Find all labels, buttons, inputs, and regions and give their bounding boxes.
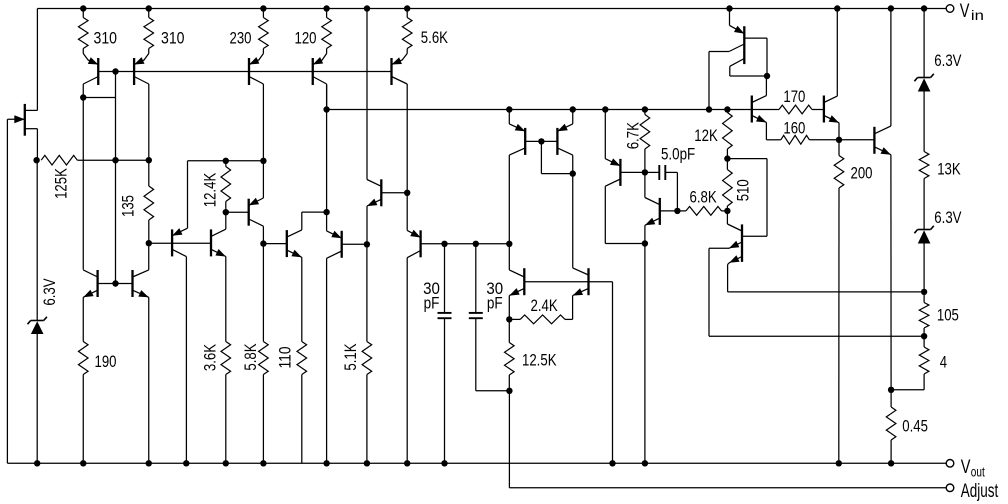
node Vout rail junction	[609, 460, 615, 466]
transistor Q1 (PNP under 310)	[83, 54, 98, 98]
node 12.5K bottom junction	[506, 388, 512, 394]
transistor Q5 (PNP under 5.6K)	[392, 54, 408, 193]
node Vout rail junction	[260, 460, 266, 466]
node Q8 collector junction	[260, 240, 266, 246]
transistor Q23 (NPN on mid rail)	[752, 76, 767, 140]
wire 12.5K bottom down to Adjust rail	[508, 391, 510, 488]
node 12.4K bottom junction	[223, 209, 229, 215]
node Vin rail junction	[80, 5, 86, 11]
node Vout rail junction	[34, 460, 40, 466]
node cap C2 top	[473, 241, 479, 247]
wire Q15 base to Q16 bar	[524, 281, 588, 283]
transistor Q7 (NPN, collector to 12.4K bottom)	[211, 212, 226, 341]
node Q10 base / Q11 emitter junction	[364, 241, 370, 247]
wire 12.4K top rail	[188, 160, 264, 162]
wire 125K node down to zener	[36, 160, 38, 320]
node Vout rail junction	[146, 460, 152, 466]
svg-text:pF: pF	[424, 294, 440, 312]
svg-text:3.6K: 3.6K	[202, 344, 220, 371]
node mirror Q13 emitter tap	[506, 106, 512, 112]
resistor 5.6K (top row #5)	[402, 9, 448, 54]
resistor 160	[766, 119, 839, 144]
transistor Q11 (NPN in line with Vin column)	[367, 179, 381, 244]
resistor 200	[834, 140, 872, 464]
node bandgap base junction	[112, 280, 118, 286]
svg-text:Adjust: Adjust	[961, 481, 999, 502]
node Adjust terminal	[946, 481, 999, 502]
node Q4-collector / Q10 emitter junction	[323, 209, 329, 215]
wire Q16 base down to Vout rail	[589, 282, 613, 464]
resistor 12K	[694, 110, 732, 159]
svg-text:170: 170	[783, 88, 805, 106]
svg-text:125K: 125K	[53, 168, 71, 199]
wire Vout bottom rail	[7, 462, 946, 464]
wire mirror base jog down	[541, 141, 572, 173]
svg-text:12.4K: 12.4K	[201, 173, 219, 208]
transistor Q21/Q22 Darlington pair (NPN, mirrored)	[709, 211, 742, 265]
node Vout terminal	[946, 457, 985, 479]
transistor Q14 (PNP mirror right, diode connected)	[557, 110, 572, 174]
wire bandgap base link	[98, 283, 133, 285]
resistor 135	[120, 160, 154, 243]
wire Q4 collector column	[326, 85, 328, 212]
resistor 5.8K	[242, 244, 268, 464]
node 12K bottom junction	[724, 155, 730, 161]
wire mid rail y=109	[327, 109, 752, 111]
wire junction down to Vout rail	[644, 244, 646, 464]
wire 12K-bottom wrap to Q21 collector	[727, 159, 767, 237]
svg-text:6.3V: 6.3V	[934, 52, 961, 70]
resistor 5.1K	[342, 342, 372, 464]
resistor 120 (top row #4)	[295, 9, 332, 54]
node Vout rail junction	[323, 460, 329, 466]
wire Q10 base to node	[342, 243, 367, 245]
capacitor C2 30pF	[469, 244, 510, 391]
wire Q21 emitter down and right to 105/4 node	[709, 248, 924, 336]
node Q17-collector / Q18-emitter junction	[642, 240, 648, 246]
wire Adjust rail	[509, 487, 946, 489]
transistor Q25 (NPN output)	[874, 9, 891, 390]
resistor 170	[752, 88, 824, 114]
transistor Q16 (NPN mirrored)	[573, 268, 589, 320]
node 6.7K bottom / Q17 base / Q18 collector / C3 junction	[642, 169, 648, 175]
transistor Q24 (NPN)	[824, 9, 839, 140]
wire Q18 base	[660, 210, 678, 212]
transistor Q17 (PNP)	[605, 110, 645, 244]
wire base rail of Q1-Q5	[98, 71, 391, 73]
svg-text:200: 200	[851, 165, 873, 183]
svg-text:6.3V: 6.3V	[934, 209, 961, 227]
wire Q17 base	[620, 171, 645, 173]
node zener / Q22-emitter-wire junction	[921, 289, 927, 295]
node Vin rail junction	[364, 5, 370, 11]
wire Q8 collector to Q9 base	[263, 243, 286, 245]
node mirror Q14 emitter tap	[570, 106, 576, 112]
resistor 110	[277, 342, 307, 464]
node Vout rail junction	[364, 460, 370, 466]
node Vin rail junction	[260, 5, 266, 11]
transistor Q9 (NPN)	[287, 212, 302, 341]
resistor 2.4K	[509, 297, 572, 324]
svg-text:230: 230	[230, 30, 252, 48]
capacitor C1 30pF	[423, 244, 451, 463]
zener diode D3 6.3V (mid right)	[914, 209, 961, 292]
transistor Q10 (PNP)	[327, 212, 342, 463]
node Vin rail junction	[834, 5, 840, 11]
wire Q1 base column down to 125K rail and bandgap bases	[115, 98, 117, 284]
transistor Q18 (NPN mirrored)	[645, 172, 660, 243]
svg-text:160: 160	[783, 119, 805, 137]
wire node down through 5.1K column	[366, 244, 368, 341]
wire Q22 emitter down and right to zener/105 node	[728, 265, 925, 292]
svg-text:6.7K: 6.7K	[624, 122, 642, 149]
node Q13 collector / Q15 collector / Q12-base-rail junction	[506, 241, 512, 247]
wire Q9 collector jog to Q4 collector column	[302, 211, 327, 213]
resistor 13K	[919, 152, 960, 230]
transistor Q13 (PNP mirror left)	[509, 110, 525, 244]
svg-text:pF: pF	[487, 294, 503, 312]
wire JFET source to 125K node	[25, 129, 38, 161]
wire Q1 diode connection jog	[83, 72, 115, 98]
node Q19 collector junction	[764, 73, 770, 79]
svg-text:12K: 12K	[694, 127, 718, 145]
svg-text:12.5K: 12.5K	[522, 351, 557, 369]
svg-text:V: V	[960, 1, 970, 22]
resistor 6.8K	[677, 189, 727, 216]
resistor 12.5K	[505, 319, 557, 390]
wire Q14 collector down to Q16 collector	[572, 174, 574, 268]
resistor 190	[78, 342, 116, 464]
resistor 3.6K	[202, 342, 231, 464]
transistor Q4 (PNP under 120)	[313, 54, 327, 110]
node Q14 collector-base junction	[570, 170, 576, 176]
wire Vin top rail	[37, 8, 946, 10]
resistor 105	[919, 292, 959, 336]
zener diode D2 6.3V (upper right)	[914, 9, 961, 152]
wire Q12 base rail	[421, 243, 510, 245]
node Q25 emitter / 4-resistor junction	[888, 387, 894, 393]
svg-text:5.1K: 5.1K	[342, 343, 360, 370]
wire base line 135-bottom to Q6/Q7	[149, 242, 211, 244]
transistor Q6 (PNP, emitter to 12.4K rail)	[172, 161, 187, 464]
svg-text:out: out	[971, 464, 985, 479]
svg-text:310: 310	[94, 30, 118, 48]
resistor 12.4K	[201, 161, 230, 212]
node Vin tap zener column	[921, 5, 927, 11]
wire 12.4K bottom to Q8 base	[226, 211, 249, 213]
node mirror base junction	[538, 138, 544, 144]
transistor Q12 (PNP)	[407, 193, 420, 464]
node 2.4K left junction	[506, 316, 512, 322]
zener diode D1 6.3V (left)	[28, 278, 60, 463]
svg-text:4: 4	[940, 354, 947, 372]
node Vout rail junction	[888, 460, 894, 466]
node Q18 base / C3 / 6.8K junction	[674, 208, 680, 214]
svg-text:2.4K: 2.4K	[531, 297, 558, 315]
wire JFET gate down to Vout rail	[6, 119, 8, 463]
node Vout rail junction	[223, 460, 229, 466]
wire Q11 base to node	[381, 192, 407, 194]
node Q17 emitter tap	[602, 106, 608, 112]
svg-text:5.8K: 5.8K	[242, 343, 260, 370]
resistor 0.45	[886, 390, 928, 464]
node Vout rail junction	[441, 460, 447, 466]
svg-text:in: in	[971, 8, 984, 23]
node rail tap at Q4 collector	[323, 106, 329, 112]
svg-text:0.45: 0.45	[902, 417, 928, 435]
transistor Q8 (PNP)	[249, 161, 264, 244]
node 12K top tap	[724, 106, 730, 112]
transistor Q3 (PNP under 230)	[249, 54, 263, 161]
transistor J1 JFET	[7, 104, 24, 136]
node Vin terminal	[946, 1, 984, 23]
svg-text:6.8K: 6.8K	[690, 189, 717, 207]
transistor Q19/Q20 PNP pair	[709, 9, 767, 110]
node Q5 collector / Q11 base / Q12 emitter	[404, 190, 410, 196]
svg-text:6.3V: 6.3V	[41, 278, 59, 305]
resistor 125K	[41, 155, 149, 199]
node Vin rail junction	[888, 5, 894, 11]
svg-text:510: 510	[734, 179, 752, 201]
node 160 / Q24 emitter / 200 / Q25 base junction	[836, 137, 842, 143]
node cap C1 top	[441, 241, 447, 247]
wire Vin to Q11 collector	[366, 9, 368, 180]
node Q1 base junction	[112, 68, 118, 74]
capacitor C3 5.0pF	[645, 146, 695, 211]
resistor 4	[891, 336, 947, 390]
resistor 510	[723, 159, 753, 211]
node Vin tap for Q19 emitter	[726, 5, 732, 11]
svg-text:13K: 13K	[937, 161, 961, 179]
node 510 bottom / 6.8K junction	[724, 208, 730, 214]
resistor 6.7K	[624, 110, 649, 173]
svg-text:105: 105	[937, 306, 959, 324]
node 105 bottom junction	[921, 333, 927, 339]
transistor Q26 (NPN bandgap left, mirrored)	[83, 270, 97, 342]
node 12.4K top junction	[223, 158, 229, 164]
wire Q1 collector column down to bandgap	[82, 98, 84, 270]
wire top-rail left end down to JFET drain	[25, 9, 38, 111]
transistor Q15 (NPN)	[509, 244, 524, 320]
node 135 top junction	[146, 157, 152, 163]
svg-text:190: 190	[95, 353, 117, 371]
node 6.7K top tap	[642, 106, 648, 112]
node rail tap x709	[706, 106, 712, 112]
svg-text:110: 110	[277, 347, 295, 369]
svg-text:310: 310	[161, 30, 185, 48]
node 135 bottom junction	[146, 240, 152, 246]
node Q1 collector junction	[80, 94, 86, 100]
node Vin rail junction	[323, 5, 329, 11]
node Q3 collector to rail junction	[260, 158, 266, 164]
svg-text:V: V	[961, 457, 971, 478]
svg-text:5.6K: 5.6K	[421, 29, 448, 47]
node Vout rail junction	[404, 460, 410, 466]
node Vout rail junction	[836, 460, 842, 466]
node 125K left junction	[33, 157, 39, 163]
svg-text:120: 120	[295, 30, 317, 48]
node Vin rail junction	[404, 5, 410, 11]
node Vin rail junction	[146, 5, 152, 11]
svg-text:135: 135	[120, 195, 138, 217]
resistor 230 (top row #3)	[230, 9, 269, 54]
resistor 310 (top row #1)	[78, 9, 117, 54]
node Vout rail junction	[642, 460, 648, 466]
node Vout rail junction	[80, 460, 86, 466]
svg-text:5.0pF: 5.0pF	[661, 146, 695, 164]
wire junction to Q25 base	[839, 139, 874, 141]
node 125K to Q1-base-column junction	[112, 157, 118, 163]
node Vout rail junction	[183, 460, 189, 466]
transistor Q27 (NPN bandgap right)	[133, 243, 149, 463]
transistor Q2 (PNP under 310)	[134, 54, 149, 161]
wire mirror base link	[525, 140, 557, 142]
resistor 310 (top row #2)	[144, 9, 185, 54]
